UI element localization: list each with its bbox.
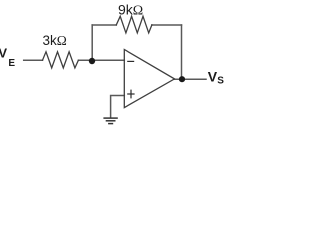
resistor R1 3kOhm zigzag	[43, 52, 79, 68]
svg-text:E: E	[8, 58, 15, 69]
wire output	[175, 78, 207, 80]
op-amp minus pin label	[127, 60, 134, 62]
svg-text:V: V	[0, 46, 7, 61]
svg-text:S: S	[217, 76, 224, 87]
resistor R2 9kOhm zigzag	[116, 16, 152, 33]
wire feedback top right	[152, 24, 182, 26]
svg-text:V: V	[208, 69, 218, 85]
wire feedback top left	[92, 24, 116, 26]
op-amp U1 triangle	[124, 50, 174, 108]
wire feedback right vertical	[181, 25, 183, 79]
ground symbol	[103, 118, 117, 124]
wire input (VE to R 3k)	[24, 59, 43, 61]
wire R1 to inverting input node	[78, 59, 124, 61]
wire feedback left vertical	[91, 25, 93, 60]
node A inverting input junction dot	[89, 58, 95, 64]
wire noninverting input	[111, 96, 125, 118]
svg-text:9kΩ: 9kΩ	[118, 2, 143, 19]
svg-text:3kΩ: 3kΩ	[43, 33, 67, 48]
op-amp plus pin label	[127, 90, 134, 99]
node B output junction dot	[179, 76, 185, 82]
